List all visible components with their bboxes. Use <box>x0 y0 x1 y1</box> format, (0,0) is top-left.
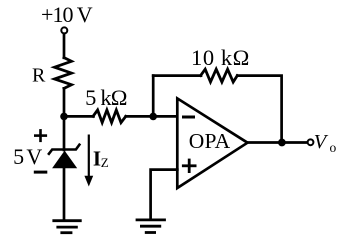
svg-text:R: R <box>32 65 46 87</box>
svg-text:Z: Z <box>101 155 109 170</box>
svg-text:OPA: OPA <box>189 129 231 153</box>
svg-text:5 kΩ: 5 kΩ <box>85 85 127 110</box>
svg-text:5 V: 5 V <box>13 144 42 169</box>
svg-text:o: o <box>330 140 337 155</box>
svg-text:+10 V: +10 V <box>41 2 93 27</box>
svg-text:10 kΩ: 10 kΩ <box>191 45 249 70</box>
